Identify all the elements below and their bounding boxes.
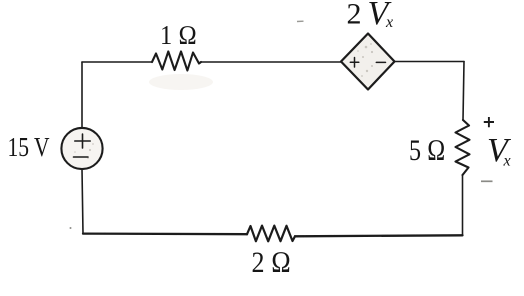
resistor R2 5-ohm vertical zigzag [456,120,470,175]
label plus polarity of Vx [484,117,494,127]
dependent source plus sign [350,58,359,68]
scan speck near 2Vx label [297,20,304,22]
wire top-middle segment [201,61,341,63]
svg-text:15 V: 15 V [8,132,50,162]
label minus polarity of Vx [481,180,493,182]
diamond interior scan noise [357,43,373,77]
wire top-left segment [82,61,152,63]
wire right-bottom vertical [462,175,464,235]
svg-text:x: x [385,14,393,31]
dependent source U1 diamond 2Vx [341,34,395,90]
resistor R3 2-ohm zigzag [247,226,295,242]
svg-text:x: x [503,153,511,170]
svg-text:2: 2 [347,0,362,30]
voltage source minus sign [74,156,89,158]
scan smudge under top resistor [149,74,213,90]
voltage source plus sign [75,134,90,148]
voltage source V1 15V circle [61,128,102,169]
resistor R1 1-ohm zigzag [152,52,201,71]
wire left vertical lower [82,169,83,234]
scan speck bottom-left [70,227,72,229]
circle interior scan noise [74,143,94,159]
svg-text:2 Ω: 2 Ω [252,246,292,279]
wire left vertical upper [81,62,83,128]
svg-text:5 Ω: 5 Ω [409,134,446,167]
svg-text:1 Ω: 1 Ω [160,20,197,50]
wire right-top vertical [463,62,464,121]
wire bottom-left segment [83,232,247,235]
dependent source minus sign [376,61,385,63]
wire bottom-right segment [295,235,463,236]
wire top-right segment [395,61,465,63]
